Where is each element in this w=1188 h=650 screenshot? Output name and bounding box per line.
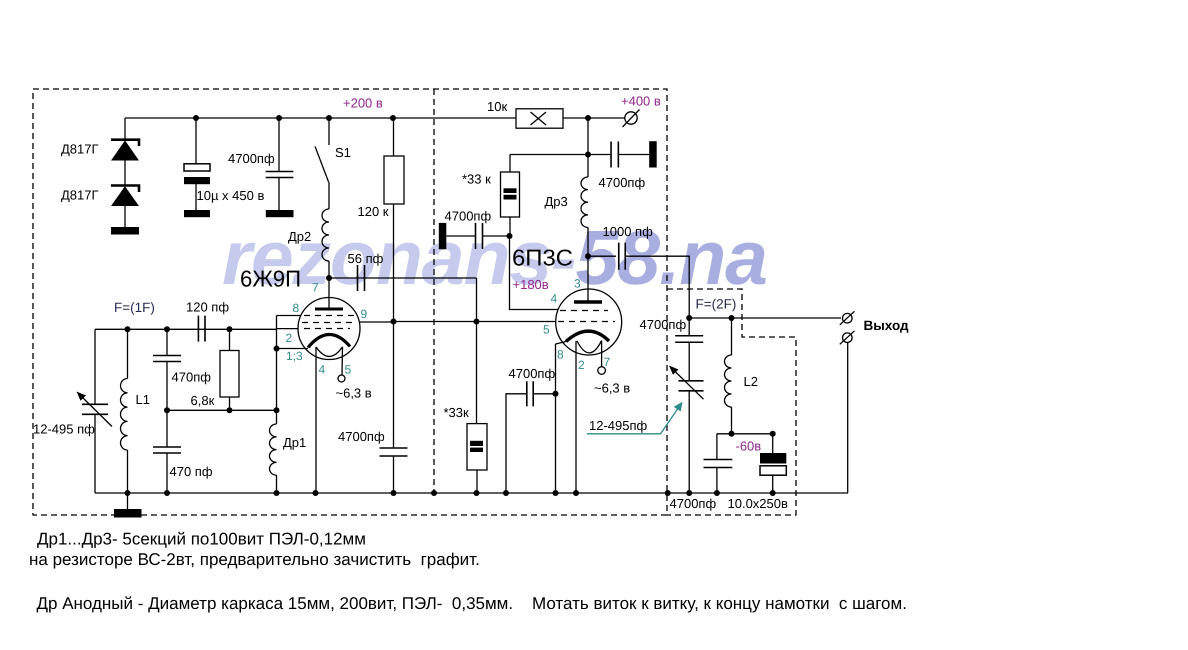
svg-text:6П3С: 6П3С <box>512 245 573 271</box>
wire capacitor to +180 node <box>483 235 510 237</box>
wire V1 cathode pins 1;3 <box>277 348 309 350</box>
svg-text:56 пф: 56 пф <box>348 251 384 266</box>
wire grid leak top <box>476 322 478 424</box>
node rail / C4700 out <box>714 490 720 496</box>
V1 cathode arc <box>308 334 350 347</box>
node rail / V2 heater <box>573 490 579 496</box>
chassis terminal below 4700pF <box>266 210 294 217</box>
terminal output hot <box>843 313 853 323</box>
capacitor 4700pF output <box>704 459 733 461</box>
wire V1 pin9 to screen node <box>359 321 394 323</box>
wire grid leak bottom <box>476 470 478 493</box>
zener diode VD2 D817G <box>111 186 139 193</box>
terminal +400 v <box>625 112 637 124</box>
svg-text:8: 8 <box>557 348 564 362</box>
node rail / C10 out <box>770 490 776 496</box>
wire C4700 out to rail <box>716 468 718 494</box>
node V2 grid <box>474 319 480 325</box>
resistor 120k <box>384 156 404 204</box>
node tank / C470 upper <box>164 326 170 332</box>
node +400 feed <box>585 115 591 121</box>
capacitor 4700pF screen bypass <box>380 447 408 449</box>
node V2 anode / 1000pF <box>585 253 591 259</box>
wire VD1 to VD2 <box>124 160 126 186</box>
svg-text:4700пф: 4700пф <box>670 496 717 511</box>
V2 pin7 heater terminal circle <box>598 367 606 375</box>
svg-text:L2: L2 <box>744 374 758 389</box>
wire 10k to +400 terminal <box>563 117 625 119</box>
svg-text:Др3: Др3 <box>545 194 568 209</box>
wire +200V top rail <box>125 117 516 119</box>
wire anode node to 1000pF <box>588 255 616 257</box>
wire C 4700pF to chassis bar <box>278 178 280 211</box>
node rail / L1 <box>125 490 131 496</box>
V1 pin5 heater terminal circle <box>338 375 345 382</box>
svg-text:4: 4 <box>319 363 326 377</box>
capacitor 470pF lower <box>166 410 168 447</box>
variable capacitor 12-495pF output <box>679 380 704 382</box>
wire V2 heater pin2 to rail <box>575 341 577 493</box>
wire L1 bottom to ground rail <box>127 450 129 493</box>
wire R 120k to screen node <box>393 204 395 322</box>
wire corner to C4700 out <box>716 434 718 460</box>
capacitor 4700pF feedthrough grid2 <box>475 223 477 249</box>
wire +400 node down <box>587 118 589 155</box>
svg-text:F=(2F): F=(2F) <box>696 297 737 312</box>
node -60v / C10 <box>770 431 776 437</box>
wire grid return vertical <box>276 316 278 425</box>
capacitor 120pF series <box>197 316 199 342</box>
svg-text:4: 4 <box>551 292 558 306</box>
node rail / Dr1 <box>274 490 280 496</box>
wire supply to Dr3 <box>587 155 589 178</box>
wire rail to diode VD1 <box>124 118 126 140</box>
svg-text:10.0х250в: 10.0х250в <box>728 496 788 511</box>
node F2F / L2 <box>729 315 735 321</box>
svg-text:~6,3 в: ~6,3 в <box>336 386 372 401</box>
capacitor 4700pF feedthrough anode <box>610 142 612 168</box>
svg-text:Др2: Др2 <box>288 229 311 244</box>
V2 heater arc <box>577 341 602 353</box>
electrolytic capacitor 10uF 450V <box>184 164 210 171</box>
node rail / shield wall <box>665 490 671 496</box>
capacitor 56pF coupling <box>357 265 359 291</box>
node rail / C4700 screen <box>391 490 397 496</box>
capacitor 4700pF rail bypass <box>266 171 294 173</box>
ground symbol bar <box>114 509 142 518</box>
switch S1 blade <box>315 146 329 182</box>
wire S1 to Dr2 <box>328 182 330 209</box>
svg-text:8: 8 <box>293 301 300 315</box>
tube V1 6Zh9P envelope <box>298 298 360 360</box>
wire C screen to ground rail <box>393 456 395 493</box>
wire V1 pin4 heater to ground rail <box>315 347 317 493</box>
node rail / C4700 tune <box>686 490 692 496</box>
capacitor 4700pF tune <box>688 318 690 336</box>
svg-text:rezonans-58.na: rezonans-58.na <box>222 215 768 301</box>
V1 heater arc <box>316 347 343 357</box>
inductor Dr1 <box>269 424 276 475</box>
node top rail / 10uF <box>193 115 199 121</box>
svg-text:4700пф: 4700пф <box>640 317 687 332</box>
wire feedthrough to capacitor <box>446 235 475 237</box>
wire C 10uF to chassis bar <box>195 184 197 210</box>
svg-text:10к: 10к <box>487 99 507 114</box>
node +180 v <box>507 233 513 239</box>
capacitor 1000pF output coupling <box>618 243 620 270</box>
chassis terminal below 10uF <box>184 210 210 217</box>
node rail / shield divider <box>431 490 437 496</box>
inductor L2 <box>725 355 732 407</box>
svg-text:9: 9 <box>361 307 368 321</box>
variable capacitor 12-495pF input <box>82 403 108 405</box>
feedthrough terminal left wall <box>439 223 447 249</box>
wire R6.8k top <box>229 329 231 350</box>
wire variable cap out to rail <box>688 391 690 493</box>
wire feedthrough cap to wall terminal <box>618 154 649 156</box>
wire bypass cap to rail corner <box>506 394 527 493</box>
wire cathode bypass corner <box>533 393 555 395</box>
wire R33k screen bottom <box>509 217 511 236</box>
wire L2 bottom <box>731 407 733 434</box>
svg-text:6,8к: 6,8к <box>191 393 215 408</box>
V2 cathode tail <box>556 342 567 345</box>
resistor *33k screen <box>501 172 520 217</box>
svg-text:-60в: -60в <box>736 439 762 454</box>
svg-text:S1: S1 <box>335 145 351 160</box>
node screen grid line <box>391 319 397 325</box>
svg-text:10µ x 450 в: 10µ x 450 в <box>197 188 265 203</box>
wire rail to C 10uF <box>195 118 197 164</box>
node V1 cathode / grid return <box>274 346 280 352</box>
wire -60v link <box>717 433 773 435</box>
resistor 6.8k <box>220 351 239 398</box>
wire tank top corner to variable cap <box>94 329 96 404</box>
wire anode node to grid2 corner <box>329 277 477 279</box>
inductor L1 <box>120 379 127 451</box>
wire R6.8k bottom <box>229 397 231 410</box>
svg-text:3: 3 <box>574 277 581 291</box>
wire output ground return <box>847 342 849 493</box>
svg-text:4700пф: 4700пф <box>228 151 275 166</box>
V1 anode plate <box>315 308 343 311</box>
wire Dr1 to ground rail <box>276 475 278 493</box>
wire F2F top <box>689 317 841 319</box>
F=(2F) shield dashed box <box>667 289 796 515</box>
wire supply to R33k screen <box>510 154 588 156</box>
svg-text:7: 7 <box>312 281 319 295</box>
annotation arrow 12-495pF <box>587 406 680 434</box>
wire R33k screen top lead <box>509 155 511 173</box>
electrolytic capacitor 10.0x250v <box>772 434 774 453</box>
node mid wire / R6.8k bottom <box>227 407 233 413</box>
wire C470 upper to mid node <box>166 362 168 411</box>
capacitor 4700pF cathode bypass <box>526 381 528 406</box>
resistor *33k grid leak <box>467 424 487 470</box>
node L2 / -60v <box>729 431 735 437</box>
V2 grid row pin4 <box>560 310 608 312</box>
resistor 10k fused <box>516 109 563 128</box>
svg-text:1000 пф: 1000 пф <box>603 224 654 239</box>
svg-text:*33 к: *33 к <box>462 172 491 187</box>
svg-text:4700пф: 4700пф <box>445 209 492 224</box>
node rail / C4700 cathode left <box>503 490 509 496</box>
wire +180 node to V2 pin4 <box>510 236 559 310</box>
wire V2 heater pin7 lead <box>601 341 603 367</box>
node top rail / 4700pF <box>276 115 282 121</box>
wire 1000pF to F2F corner <box>625 256 689 318</box>
V2 cathode arc <box>566 331 609 341</box>
svg-text:L1: L1 <box>136 392 150 407</box>
wire screen node to V2 grid node <box>394 321 477 323</box>
ground symbol stub <box>127 493 129 509</box>
node anode V1 / Dr2 <box>326 275 332 281</box>
svg-text:120 к: 120 к <box>358 204 389 219</box>
svg-text:5: 5 <box>543 323 550 337</box>
svg-text:470 пф: 470 пф <box>170 464 213 479</box>
wire rail to R 120k <box>393 118 395 156</box>
wire cathode mid link <box>167 409 277 411</box>
node anode supply V2 <box>585 152 591 158</box>
chassis terminal below diodes <box>111 227 139 235</box>
wire rail to S1 <box>328 118 330 145</box>
zener diode VD1 D817G <box>111 140 139 146</box>
wire V2 anode lead <box>587 256 589 302</box>
wire C470 upper <box>166 329 168 355</box>
node F2F top / C4700 tune <box>686 315 692 321</box>
wire V1 pin2 <box>277 328 299 330</box>
svg-text:12-495 пф: 12-495 пф <box>33 422 95 437</box>
svg-text:2: 2 <box>286 331 293 345</box>
node V2 cathode bypass <box>553 391 559 397</box>
svg-text:4700пф: 4700пф <box>338 429 385 444</box>
shield enclosure dashed box <box>33 89 667 515</box>
svg-text:*33к: *33к <box>444 405 470 420</box>
wire VD2 to chassis bar <box>124 206 126 228</box>
inductor Dr3 <box>581 177 588 227</box>
svg-text:Д817Г: Д817Г <box>61 188 99 203</box>
svg-text:Выход: Выход <box>864 318 910 333</box>
svg-text:Др1...Др3- 5секций по100вит ПЭ: Др1...Др3- 5секций по100вит ПЭЛ-0,12мм <box>37 530 366 549</box>
svg-text:+200 в: +200 в <box>343 96 383 111</box>
wire ground rail <box>95 492 848 494</box>
wire Dr3 to V2 anode node <box>587 227 589 256</box>
svg-text:12-495пф: 12-495пф <box>589 418 648 433</box>
V2 grid row pin5 <box>558 321 615 323</box>
node mid wire / C470 <box>164 407 170 413</box>
svg-text:Др Анодный - Диаметр каркаса 1: Др Анодный - Диаметр каркаса 15мм, 200ви… <box>37 594 907 613</box>
svg-text:470пф: 470пф <box>172 370 212 385</box>
wire V2 grid node to tube V2 pin5 <box>477 321 557 323</box>
wire L1 top <box>127 329 129 378</box>
wire variable cap to ground rail corner <box>94 414 96 493</box>
V1 grid row pin8 <box>304 315 354 317</box>
V2 anode plate <box>574 300 602 303</box>
V1 grid row pin2 <box>304 328 350 330</box>
wire V1 anode lead <box>328 278 330 309</box>
feedthrough terminal right wall <box>649 141 657 167</box>
node mid wire / grid return <box>274 407 280 413</box>
V1 grid row pin9 <box>302 322 356 324</box>
svg-text:2: 2 <box>578 358 585 372</box>
svg-text:6Ж9П: 6Ж9П <box>240 266 301 292</box>
wire V1 grid tank top <box>95 328 277 330</box>
svg-text:Д817Г: Д817Г <box>61 142 99 157</box>
terminal output ground <box>843 333 853 343</box>
node rail / V2 cathode <box>553 490 559 496</box>
svg-text:на резисторе ВС-2вт, предварит: на резисторе ВС-2вт, предварительно зачи… <box>29 550 480 569</box>
wire supply to feedthrough cap right <box>588 154 611 156</box>
node top rail / 120k <box>390 115 396 121</box>
node top rail / S1 <box>326 115 332 121</box>
wire V2 cathode down <box>555 344 557 493</box>
svg-text:7: 7 <box>604 355 611 369</box>
svg-text:+180в: +180в <box>513 277 549 292</box>
node rail / V1 heater <box>313 490 319 496</box>
wire V1 pin8 <box>277 315 302 317</box>
svg-text:4700пф: 4700пф <box>509 366 556 381</box>
svg-text:+400 в: +400 в <box>621 94 661 109</box>
wire L2 top <box>731 318 733 355</box>
svg-text:F=(1F): F=(1F) <box>114 300 155 315</box>
wire screen node to C 4700pF screen <box>393 322 395 449</box>
inductor Dr2 <box>322 209 329 261</box>
wire Dr2 to anode node <box>328 261 330 278</box>
node tank / L1 <box>125 326 131 332</box>
node rail / R33k grid leak <box>474 490 480 496</box>
wire rail to C 4700pF bypass <box>278 118 280 172</box>
wire tune cap to variable cap <box>688 342 690 381</box>
svg-text:~6,3 в: ~6,3 в <box>594 381 630 396</box>
svg-text:Др1: Др1 <box>283 435 306 450</box>
svg-text:5: 5 <box>345 363 352 377</box>
svg-text:4700пф: 4700пф <box>599 175 646 190</box>
node rail / C470 lower <box>164 490 170 496</box>
wire corner down to V2 grid node <box>476 278 478 322</box>
shield stage divider dashed line <box>433 89 435 493</box>
svg-text:1;3: 1;3 <box>286 349 303 363</box>
capacitor 470pF upper <box>153 355 181 357</box>
wire V1 pin5 heater lead <box>341 347 344 375</box>
svg-text:120 пф: 120 пф <box>186 300 229 315</box>
tube V2 6P3S envelope <box>556 289 622 355</box>
node tank / R6.8k <box>227 326 233 332</box>
